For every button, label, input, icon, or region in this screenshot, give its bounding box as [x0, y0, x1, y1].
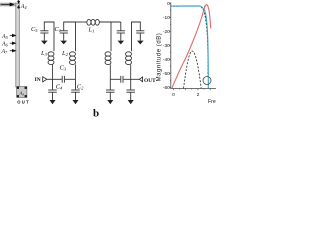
- ground arrow under C2: [73, 100, 79, 104]
- capacitor C2' (shunt, right): [126, 79, 135, 100]
- ground arrow under C4': [107, 100, 113, 104]
- y-axis: [170, 3, 172, 89]
- svg-text:L2: L2: [61, 50, 69, 57]
- input arrow on trace: [1, 3, 14, 6]
- inductor L3' (shunt coil 3): [105, 52, 111, 80]
- svg-text:A6: A6: [1, 42, 9, 48]
- svg-text:b: b: [93, 108, 99, 120]
- port IN triangle: [43, 77, 47, 82]
- ground C1 stem: [63, 33, 65, 41]
- svg-text:OUT: OUT: [17, 100, 29, 105]
- wire: resonator1 inverted-U C5-L3: [44, 22, 54, 51]
- inductor L2 (shunt coil 2): [70, 52, 76, 80]
- svg-text:IN: IN: [35, 77, 41, 83]
- capacitor C3' (series, right) plates: [121, 76, 123, 83]
- wire: resonator4 inverted-U C5'-L4 (mirror): [132, 22, 145, 51]
- curve dashed sim flat+descent: [173, 6, 208, 76]
- wire: node3 to C3': [110, 78, 120, 80]
- curve dashed hump (S11 sim): [184, 51, 202, 89]
- capacitor C1 plates: [60, 30, 68, 32]
- svg-text:C2: C2: [77, 84, 84, 91]
- svg-text:C1: C1: [55, 26, 62, 33]
- y tick labels: [163, 1, 170, 91]
- svg-text:-50: -50: [163, 71, 170, 77]
- x-axis: [170, 88, 216, 90]
- y ticks: [169, 3, 171, 87]
- wire: C3' to OUT: [123, 78, 139, 80]
- capacitor C1' (right, mirror): [117, 22, 125, 41]
- capacitor C2 (shunt): [71, 79, 80, 100]
- marker circle (transmission zero): [203, 77, 211, 85]
- curve dashed peak cap: [204, 5, 208, 7]
- capacitor C4' (shunt, right): [106, 79, 115, 100]
- svg-text:0: 0: [167, 1, 170, 7]
- capacitor C4 (shunt): [48, 79, 57, 100]
- inductor L3 (shunt coil 1): [48, 52, 54, 80]
- svg-text:L3: L3: [40, 50, 48, 57]
- ground arrow under C1': [118, 41, 125, 45]
- inductor L4 (shunt coil 4): [126, 52, 132, 80]
- svg-text:-60: -60: [163, 85, 170, 91]
- svg-text:A7: A7: [1, 49, 9, 55]
- svg-text:A8: A8: [19, 91, 25, 97]
- capacitor C5' plates: [136, 30, 144, 32]
- x ticks: [174, 89, 211, 91]
- curve S21 measured (teal): [171, 6, 208, 88]
- ground arrow under C2': [128, 100, 134, 104]
- ground arrow under C4: [50, 100, 56, 104]
- svg-text:Magnitude (dB): Magnitude (dB): [156, 33, 162, 82]
- ground arrow under C5': [137, 41, 144, 45]
- inductor L1 (series coupling coil): [87, 19, 100, 25]
- svg-text:0: 0: [172, 92, 175, 98]
- microstrip vertical line A5-A7: [16, 3, 19, 87]
- ground arrow under C5: [41, 41, 48, 45]
- svg-text:2: 2: [197, 92, 200, 98]
- svg-text:C4: C4: [56, 84, 63, 91]
- svg-text:A5: A5: [1, 34, 8, 40]
- svg-text:-20: -20: [163, 29, 170, 35]
- svg-text:C3: C3: [60, 65, 67, 72]
- svg-text:-40: -40: [163, 57, 170, 63]
- capacitor C5 plates: [40, 30, 48, 32]
- capacitor C3 (series) plates: [62, 76, 64, 83]
- port box A8: [17, 87, 27, 98]
- curve S11 measured (red): [172, 5, 211, 88]
- ground arrow under C1: [60, 41, 67, 45]
- svg-text:A4: A4: [20, 4, 27, 10]
- svg-text:OUT: OUT: [144, 78, 156, 84]
- svg-text:-30: -30: [163, 43, 170, 49]
- width dimension arrows A4: [18, 0, 20, 9]
- wire: L3' top riser from rail: [110, 22, 112, 51]
- svg-text:Freq: Freq: [208, 99, 216, 105]
- ground C5 stem: [43, 33, 45, 41]
- svg-text:C5: C5: [31, 26, 38, 33]
- x tick labels: [172, 92, 200, 98]
- wire: C3 to node2: [65, 78, 76, 80]
- wire: top rail left of L1: [76, 21, 87, 23]
- microstrip input trace (figure a, partial): [0, 3, 16, 6]
- wire: resonator2 riser C1 to rail: [64, 22, 76, 31]
- wire: top rail right of L1: [100, 21, 121, 23]
- wire: IN to node1 to C3: [47, 78, 62, 80]
- wire: L2 top riser: [75, 22, 77, 51]
- svg-text:L1: L1: [88, 27, 95, 34]
- svg-text:-10: -10: [163, 15, 170, 21]
- port OUT triangle: [139, 77, 142, 82]
